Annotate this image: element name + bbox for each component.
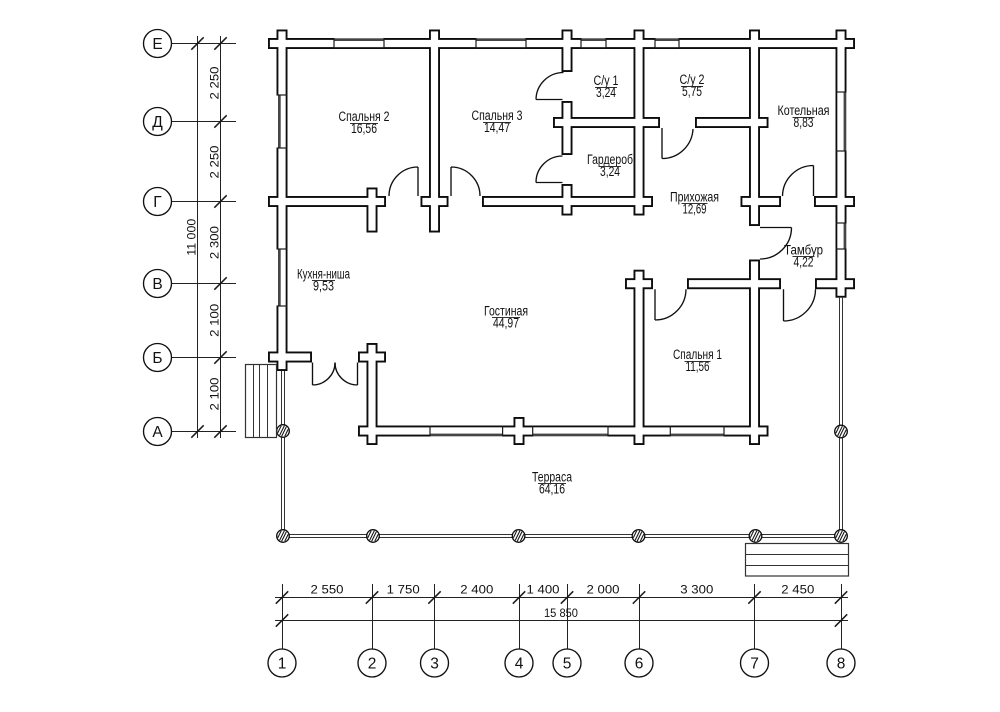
axis В: tick on segment dim line [214,277,226,289]
door: Спальня 1 from Гостиная [655,289,686,320]
svg-text:2 000: 2 000 [587,585,620,597]
terrace column 1 [277,425,290,438]
wall: axis 6 wall from В to А (interior fill) [635,272,642,444]
svg-text:8,83: 8,83 [794,115,814,130]
svg-text:3,24: 3,24 [600,164,620,179]
axis Д: tick on segment dim line [214,115,226,127]
svg-text:Д: Д [152,114,163,131]
window in south wall (Гостиная west) [430,426,503,437]
wall: south exterior wall (axis А) (outline) [358,426,769,437]
room label: Спальня 2 16,56 [339,109,390,136]
wall: axis 2 wall from Б to А (interior fill) [368,345,375,443]
svg-text:8: 8 [837,656,846,673]
wall: axis Д partition west part (С/у 1) (interior fill) [555,119,658,126]
axis 4: tick on segment dim line [513,591,525,603]
window in south wall (Гостиная east) [533,426,608,437]
door: С/у 2 from Прихожая [662,128,693,159]
axis circle Б [144,344,172,372]
svg-text:5: 5 [563,656,572,673]
wall: axis Д partition east part (С/у 2) (interior fill) [697,119,767,126]
wall: axis 2 stub below Г cross (interior fill) [368,189,375,230]
wall: south exterior wall (axis А) (interior fill) [360,427,767,434]
wall: axis 2 stub below Г cross (outline) [367,188,378,233]
terrace edge: west side [282,437,285,536]
axis circle 3 [421,649,449,677]
wall: axis В wall between Спальня 1 door and Тамбур door (outline) [687,278,781,289]
svg-text:12,69: 12,69 [683,202,707,217]
wall: west exterior wall (axis 1) (interior fill) [278,31,285,369]
axis circle 5 [553,649,581,677]
room label: Котельная 8,83 [778,103,830,130]
door: Котельная from Прихожая [783,165,814,196]
wall: axis 7 wall from Тамбур door to А (outline) [749,260,760,446]
wall: axis Б wall east jamb at axis 2 (interior fill) [360,353,384,360]
wall: east exterior wall (axis 8) (interior fill) [837,31,844,295]
wall: axis 5 wall lower part to Г (interior fill) [563,186,570,214]
svg-text:14,47: 14,47 [484,120,510,135]
svg-text:2 450: 2 450 [781,585,814,597]
terrace column 8 [835,425,848,438]
door: Спальня 3 (swing into room) [451,167,480,196]
axis 4: leader line [519,584,521,649]
wall: axis 2 wall from Б to А (outline) [367,343,378,445]
wall: axis Г wall Котельная south-west part (outline) [741,196,782,207]
svg-text:2: 2 [368,656,377,673]
terrace edge: west side below Б [282,371,285,425]
svg-text:Б: Б [152,350,162,367]
horizontal dimension line (segments) [275,597,848,599]
axis Б: leader line [172,357,237,359]
wall: axis 6 wall from В to А (outline) [634,270,645,445]
tick at Е on total dim line [191,37,203,49]
door: Тамбур from Прихожая [760,228,792,260]
wall: axis 5 wall between С/у 1 and Гардероб doors (interior fill) [563,103,570,153]
axis Г: tick on segment dim line [214,195,226,207]
axis 7: tick on segment dim line [748,591,760,603]
wall: axis 5 wall upper part (outline) [562,30,573,73]
axis circle А [144,418,172,446]
svg-text:4: 4 [515,656,524,673]
svg-text:9,53: 9,53 [313,279,334,294]
window in south wall (Спальня 1) [670,426,724,437]
wall: axis Г stub at axis 3 (interior fill) [422,198,446,205]
svg-text:Г: Г [153,194,162,211]
vertical dimension line (segments) [220,36,222,438]
tick at axis 1 on total dim line [276,614,288,626]
axis circle Г [144,188,172,216]
wall: axis Д partition west part (С/у 1) (outline) [553,117,660,128]
wall: axis В wall east of Тамбур entrance (outline) [815,278,855,289]
wall: axis 6 wall from Е to Г (outline) [634,30,645,216]
wall: axis Б wall west part (Кухня-ниша south) (interior fill) [270,353,310,360]
terrace edge: east side [840,298,843,536]
wall: axis 6 wall from Е to Г (interior fill) [635,31,642,213]
horizontal dimension line (total 15 850) [275,620,848,622]
svg-text:2 250: 2 250 [210,67,222,100]
tick at А on total dim line [191,425,203,437]
window in east wall (Котельная) [836,92,847,151]
room label: Гостиная 44,97 [484,304,528,331]
room label: С/у 1 3,24 [594,73,619,100]
axis 2: leader line [372,584,374,649]
wall: axis Г stub at axis 3 (outline) [421,196,449,207]
axis circle 4 [505,649,533,677]
wall: axis 7 wall from Е to Тамбур door (outline) [749,30,760,227]
wall: axis Г wall from axis 1 to 2 (Спальня 2 south) (interior fill) [270,198,384,205]
wall: axis 3 wall from Е to Г (outline) [429,30,440,233]
wall: axis 7 wall from Е to Тамбур door (interior fill) [751,31,758,224]
axis 2: tick on segment dim line [366,591,378,603]
terrace column 6 [749,530,762,543]
axis circle Д [144,108,172,136]
svg-text:7: 7 [750,656,759,673]
axis 8: leader line [841,584,843,649]
wall: axis В wall east of Тамбур entrance (interior fill) [817,280,853,287]
axis 3: tick on segment dim line [428,591,440,603]
tick at axis 8 on total dim line [835,614,847,626]
wall: axis Г wall Котельная south-east part (outline) [814,196,855,207]
wall: axis Г wall from Спальня 3 door to axis 6 (outline) [482,196,653,207]
door: double door Кухня-ниша to terrace (left leaf) [313,363,336,386]
axis 7: leader line [754,584,756,649]
axis circle В [144,270,172,298]
axis Д: leader line [172,121,237,123]
svg-text:А: А [152,424,163,441]
axis circle 8 [827,649,855,677]
wall: axis Г wall Котельная south-east part (interior fill) [816,198,853,205]
window in north wall (Спальня 3) [476,38,526,49]
wall: axis 4 stub on south wall (interior fill) [515,419,522,443]
window in north wall (С/у 1) [581,38,606,49]
wall: west exterior wall (axis 1) (outline) [277,30,288,372]
svg-text:64,16: 64,16 [539,482,565,497]
wall: axis В stub at axis 6 (Спальня 1 door jamb) (interior fill) [627,280,651,287]
wall: axis В stub at axis 6 (Спальня 1 door jamb) (outline) [625,278,653,289]
svg-text:2 100: 2 100 [210,304,222,337]
wall: east exterior wall (axis 8) (outline) [836,30,847,298]
axis Е: leader line [172,43,237,45]
svg-text:2 250: 2 250 [210,146,222,179]
axis 5: leader line [567,584,569,649]
terrace column 3 [367,530,380,543]
axis 8: tick on segment dim line [835,591,847,603]
vertical dimension line (total 11 000) [197,36,199,438]
axis В: leader line [172,283,237,285]
wall: axis Г wall Котельная south-west part (interior fill) [742,198,779,205]
wall: axis 4 stub on south wall (outline) [514,417,525,445]
svg-text:6: 6 [635,656,644,673]
axis Б: tick on segment dim line [214,351,226,363]
door: Спальня 2 (swing into room) [389,167,418,196]
svg-text:2 400: 2 400 [460,585,493,597]
door: double door Кухня-ниша to terrace (right leaf) [335,363,358,386]
svg-text:1 400: 1 400 [527,585,560,597]
axis А: tick on segment dim line [214,425,226,437]
svg-text:3 300: 3 300 [680,585,713,597]
axis circle 1 [268,649,296,677]
room label: Спальня 1 11,56 [673,347,722,374]
axis 1: leader line [282,584,284,649]
wall: axis 3 wall from Е to Г (interior fill) [431,31,438,230]
wall: axis Б wall west part (Кухня-ниша south) (outline) [268,352,312,363]
svg-text:4,22: 4,22 [794,255,814,270]
svg-text:2 300: 2 300 [210,226,222,259]
svg-text:44,97: 44,97 [493,316,519,331]
door: Гардероб from Спальня 3 [536,156,563,183]
entrance steps west (left porch) [246,365,277,438]
svg-text:3: 3 [430,656,439,673]
axis circle 2 [358,649,386,677]
terrace edge: south side [283,535,841,538]
svg-text:11,56: 11,56 [686,359,710,374]
svg-text:2 550: 2 550 [311,585,344,597]
svg-text:16,56: 16,56 [351,121,377,136]
window in west wall (Спальня 2) [277,95,288,148]
window in north wall (С/у 2) [655,38,679,49]
axis 3: leader line [434,584,436,649]
wall: axis Д partition east part (С/у 2) (outline) [695,117,769,128]
room label: Терраса 64,16 [532,470,572,497]
window in north wall (Спальня 2) [334,38,384,49]
wall: axis Г wall from Спальня 3 door to axis 6 (interior fill) [484,198,651,205]
terrace column 2 [277,530,290,543]
terrace column 5 [632,530,645,543]
axis Е: tick on segment dim line [214,37,226,49]
svg-text:3,24: 3,24 [596,85,616,100]
room label: Спальня 3 14,47 [472,108,523,135]
svg-text:1: 1 [278,656,287,673]
axis circle Е [144,30,172,58]
door: С/у 1 from Спальня 3 [536,73,564,100]
axis circle 6 [625,649,653,677]
room label: Гардероб 3,24 [587,152,633,179]
axis Г: leader line [172,201,237,203]
wall: axis Б wall east jamb at axis 2 (outline) [358,352,386,363]
entrance steps south-east [746,544,850,577]
terrace column 7 [835,530,848,543]
window in west wall (Кухня-ниша) [277,249,288,306]
wall: axis В wall between Спальня 1 door and Тамбур door (interior fill) [689,280,779,287]
terrace column 4 [512,530,525,543]
axis circle 7 [741,649,769,677]
svg-text:15 850: 15 850 [544,608,578,620]
axis А: leader line [172,431,237,433]
axis 1: tick on segment dim line [276,591,288,603]
wall: north exterior wall (axis Е) (outline) [268,38,855,49]
wall: axis 5 wall between С/у 1 and Гардероб doors (outline) [562,101,573,155]
wall: axis Г wall from axis 1 to 2 (Спальня 2 south) (outline) [268,196,386,207]
wall: axis 5 wall upper part (interior fill) [563,31,570,70]
axis 5: tick on segment dim line [561,591,573,603]
wall: north exterior wall (axis Е) (interior fill) [270,40,853,47]
room label: С/у 2 5,75 [680,72,705,99]
room label: Кухня-ниша 9,53 [297,267,350,294]
svg-text:2 100: 2 100 [210,378,222,411]
axis 6: tick on segment dim line [633,591,645,603]
window in east wall (Тамбур) [836,223,847,249]
svg-text:5,75: 5,75 [682,84,702,99]
room label: Тамбур 4,22 [784,243,823,270]
svg-text:11 000: 11 000 [187,219,199,256]
wall: axis 7 wall from Тамбур door to А (interior fill) [751,261,758,443]
svg-text:В: В [152,276,162,293]
wall: axis 5 wall lower part to Г (outline) [562,184,573,216]
room label: Прихожая 12,69 [670,190,719,217]
svg-text:1 750: 1 750 [387,585,420,597]
svg-text:Е: Е [152,36,162,53]
axis 6: leader line [639,584,641,649]
door: entrance to Тамбур from terrace [784,289,816,321]
